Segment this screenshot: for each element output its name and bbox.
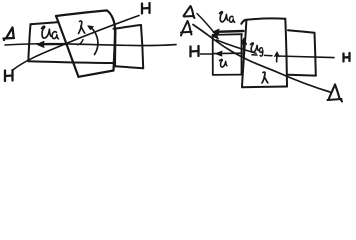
label v_g — [251, 43, 263, 56]
label lambda left — [79, 21, 85, 34]
arrow v_a right fig — [213, 29, 244, 34]
label D bottom right — [328, 85, 343, 102]
label v_a right — [220, 12, 235, 23]
arrow v_a left — [37, 41, 66, 47]
label lambda right — [262, 72, 268, 83]
ray from D1 with arrowhead — [197, 14, 219, 40]
line H right segment — [277, 56, 334, 58]
block rectangle left — [28, 22, 115, 63]
label D top 2 — [181, 21, 192, 36]
extra refracted ray stroke — [217, 40, 257, 53]
label H left — [191, 46, 199, 57]
angle arc at crossing — [78, 40, 83, 45]
line H dashes middle — [252, 54, 272, 57]
long diagonal ray D2 to D4 — [193, 25, 330, 93]
plate rectangle — [213, 34, 242, 75]
label v_a — [42, 26, 59, 39]
rectangle small right fig — [288, 30, 316, 75]
angle tick arrow lambda — [275, 52, 280, 62]
arrow v_g up — [241, 38, 247, 55]
label v small in plate — [220, 59, 227, 67]
diagonal line H-H — [14, 16, 140, 70]
block rectangle small right — [114, 25, 144, 68]
label D left — [4, 28, 15, 41]
label H bottom left — [5, 70, 13, 81]
line H inside plate with left arrowhead — [214, 51, 242, 56]
label H right — [344, 53, 350, 62]
central rectangle — [241, 19, 287, 88]
label H top right — [142, 3, 150, 14]
prism quad tilted — [56, 11, 115, 77]
label D top 1 — [184, 6, 195, 18]
axis line horizontal — [5, 44, 176, 46]
line H stub left — [201, 53, 214, 55]
arc rotation arrow — [88, 26, 98, 55]
